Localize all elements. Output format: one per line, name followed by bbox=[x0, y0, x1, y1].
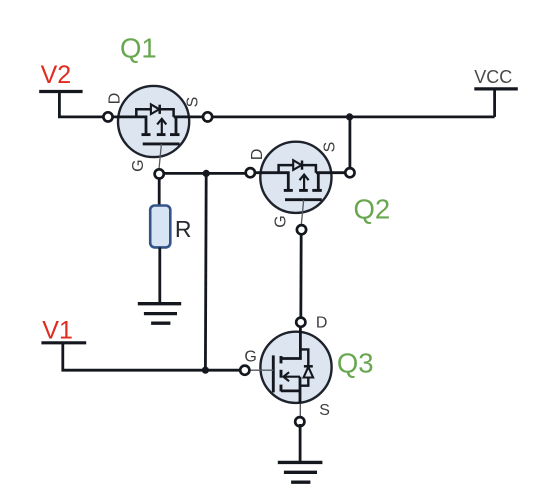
ground under Q3 bbox=[278, 461, 323, 464]
body arrow stub bbox=[283, 372, 300, 381]
svg-text:S: S bbox=[322, 142, 339, 153]
wire: rail drop to Q2 source bbox=[348, 117, 351, 173]
wire: Q3 source to ground bbox=[299, 424, 302, 462]
body diode triangle bbox=[304, 367, 314, 378]
wire: VCC bar bbox=[474, 87, 518, 90]
diode branch from drain bbox=[300, 349, 308, 366]
transistor Q2 bbox=[246, 142, 355, 235]
drain internal wire bbox=[281, 326, 300, 359]
transistor Q1 bbox=[103, 86, 212, 179]
wire: V1 bar bbox=[41, 341, 86, 344]
transistor Q3 bbox=[240, 315, 331, 427]
svg-text:G: G bbox=[244, 349, 256, 366]
svg-text:S: S bbox=[319, 402, 330, 419]
svg-text:D: D bbox=[316, 315, 328, 332]
svg-text:V2: V2 bbox=[41, 61, 72, 89]
wire: V1 stem and lead to Q3 gate bbox=[63, 342, 245, 371]
body circle bbox=[260, 332, 331, 403]
svg-text:S: S bbox=[185, 97, 202, 108]
terminal pin D bbox=[296, 318, 305, 327]
svg-text:Q2: Q2 bbox=[353, 194, 390, 225]
svg-text:VCC: VCC bbox=[474, 67, 512, 87]
gate bar bbox=[272, 355, 275, 392]
wire: V2 bar bbox=[39, 90, 82, 93]
channel segment bottom bbox=[280, 385, 283, 392]
wire: Q1 gate row to Q2 drain bbox=[159, 172, 250, 175]
gate thin lead bbox=[248, 369, 273, 371]
wire: gate row down to V1 row bbox=[204, 173, 208, 370]
wire: V2 stem and lead to Q1 drain bbox=[59, 90, 108, 117]
body diode cathode bar bbox=[304, 365, 313, 368]
ground under resistor bbox=[138, 302, 181, 305]
channel segment middle bbox=[280, 370, 283, 378]
channel segment top bbox=[280, 356, 283, 363]
terminal pin S bbox=[295, 417, 304, 426]
svg-text:Q1: Q1 bbox=[120, 33, 157, 64]
wire: Q1 gate down to resistor bbox=[158, 174, 161, 206]
junction dot at rail/Q2 source bbox=[346, 113, 353, 120]
source thin lead bbox=[299, 404, 301, 417]
diode anode to source bbox=[300, 378, 308, 386]
body to source wire bbox=[281, 377, 300, 404]
wire: top rail from Q1 source to VCC bbox=[208, 116, 495, 119]
resistor R bbox=[150, 206, 170, 248]
svg-text:Q3: Q3 bbox=[337, 348, 374, 379]
junction dot V1 row bbox=[202, 367, 209, 374]
svg-text:V1: V1 bbox=[42, 317, 73, 345]
terminal pin G bbox=[240, 366, 249, 375]
wire: resistor to ground bbox=[158, 247, 161, 302]
wire: Q2 gate down to Q3 drain bbox=[299, 230, 302, 323]
wire: VCC stem bbox=[493, 89, 496, 117]
svg-text:R: R bbox=[175, 216, 192, 242]
junction dot gate row bbox=[203, 170, 210, 177]
